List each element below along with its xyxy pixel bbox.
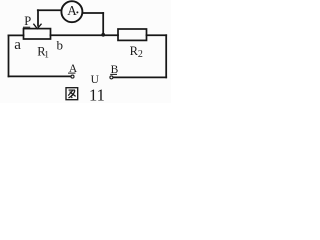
resistor R2 body xyxy=(118,29,147,40)
svg-text:P: P xyxy=(24,14,31,28)
wire R2 to right corner xyxy=(147,34,167,36)
wire corner down to junction xyxy=(102,13,104,35)
underline of B xyxy=(110,73,117,75)
svg-text:U: U xyxy=(91,74,100,86)
wire top from slider to ammeter xyxy=(38,9,61,11)
svg-text:11: 11 xyxy=(89,86,105,103)
wire slider shaft P xyxy=(37,10,39,26)
wire right vertical xyxy=(165,35,167,77)
svg-text:b: b xyxy=(57,37,64,52)
terminal A node circle xyxy=(71,75,74,78)
wire mid rail b to R2 xyxy=(51,34,119,36)
wire left stub into R1 terminal a xyxy=(9,34,24,36)
svg-text:1: 1 xyxy=(44,49,49,59)
junction node dot xyxy=(101,33,105,37)
slider arrowhead onto R1 xyxy=(34,24,41,29)
terminal B node circle xyxy=(110,76,113,79)
wire left vertical xyxy=(8,35,10,76)
underline of P xyxy=(23,26,30,28)
svg-text:2: 2 xyxy=(138,49,143,60)
svg-text:a: a xyxy=(14,37,21,53)
ammeter dot mark xyxy=(76,11,78,13)
resistor R1 rheostat body xyxy=(24,29,51,39)
wire bottom left rail to terminal A xyxy=(9,75,71,77)
ammeter A1 circle xyxy=(61,1,82,22)
caption character tu (figure) drawn glyph xyxy=(66,88,78,100)
svg-text:A: A xyxy=(67,3,77,18)
wire ammeter right to corner xyxy=(83,12,103,14)
wire bottom right rail from terminal B xyxy=(113,76,166,78)
underline of A xyxy=(68,72,75,74)
